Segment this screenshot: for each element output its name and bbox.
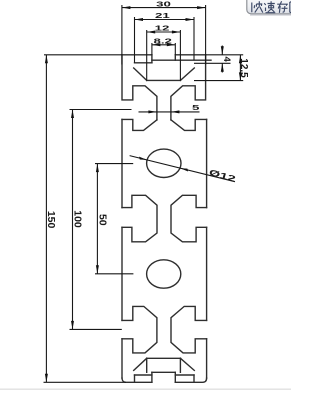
head roof underside right — [180, 68, 194, 80]
leader arrow left — [139, 157, 147, 160]
svg-text:21: 21 — [155, 12, 170, 20]
dim 30 extension left — [121, 5, 123, 65]
bore hole circle C1 — [147, 149, 181, 177]
dim 150 extension top — [44, 54, 122, 56]
bottom roof underside right — [180, 358, 194, 370]
outer wall left middle — [121, 227, 123, 320]
dim 100 arrow bottom — [71, 321, 74, 330]
dim 12.5 arrow bottom — [239, 72, 242, 81]
dim 100 extension top — [70, 109, 132, 111]
bottom face right with round corner — [175, 378, 206, 382]
slot station1 right — [171, 119, 207, 130]
dim 50 extension top — [95, 163, 133, 165]
head top face left — [122, 54, 152, 56]
head ledge left — [135, 62, 152, 64]
dim 8.2 extension right — [174, 43, 176, 55]
bottom slot ceiling — [152, 371, 175, 373]
dim 4 arrow lower — [221, 63, 224, 71]
button glyph kuai — [252, 1, 263, 12]
dim 12.5 extension top — [206, 54, 244, 56]
profile head outline left — [122, 55, 157, 120]
svg-text:30: 30 — [156, 0, 171, 8]
head slot inner face right — [174, 55, 176, 60]
dim 50 extension bottom — [95, 273, 133, 275]
quick-save button — [247, 0, 299, 15]
dim 4 arrow upper — [221, 46, 224, 55]
bottom rim inner face left — [134, 375, 136, 382]
bottom ledge right — [175, 374, 194, 376]
head slot inner face left — [151, 55, 153, 63]
svg-text:5: 5 — [192, 104, 199, 112]
svg-text:100: 100 — [71, 210, 83, 228]
dim 8.2 arrow left — [152, 43, 161, 46]
dim 50 arrow top — [96, 164, 99, 173]
bottom chamber side left — [146, 358, 148, 372]
bottom ledge left — [135, 374, 152, 376]
leader line for hole diameter — [130, 156, 235, 182]
dim 4 line upper — [221, 46, 223, 55]
bore hole circle C2 — [147, 260, 181, 288]
leader arrow right — [180, 168, 188, 171]
dim 12 extension left — [146, 30, 148, 80]
svg-text:50: 50 — [96, 214, 108, 226]
slot station3 right — [171, 306, 207, 353]
dim 100 line — [72, 110, 74, 330]
head ledge right / slot floor — [152, 59, 211, 61]
head top face right — [175, 54, 205, 56]
slot station1 left — [122, 119, 157, 130]
slot station2 left — [122, 195, 157, 242]
dim 5 arrow left — [148, 110, 157, 113]
dim 21 arrow right — [186, 18, 195, 21]
dim 21 extension left — [134, 17, 136, 63]
outer wall right lower — [206, 339, 208, 378]
dim 12.5 line — [239, 55, 241, 81]
outer wall right middle — [206, 227, 208, 320]
svg-text:8.2: 8.2 — [153, 38, 172, 46]
dim 30 arrow left — [122, 6, 130, 9]
svg-text:12: 12 — [155, 25, 170, 33]
dim 12 extension right — [179, 30, 181, 80]
slot station2 right — [171, 195, 207, 242]
bottom chamber side right — [179, 358, 181, 372]
button glyph cun — [277, 1, 288, 13]
dim 150 arrow bottom — [45, 374, 48, 383]
dim 150 arrow top — [45, 55, 48, 64]
dim 150 line — [45, 55, 47, 383]
dim 30 line — [122, 7, 206, 9]
dim 12 arrow left — [147, 31, 156, 34]
bottom rim inner face right — [193, 375, 195, 382]
page bottom rule — [0, 388, 291, 390]
button glyph su — [264, 1, 275, 13]
dim 100 extension bottom — [70, 328, 122, 330]
dim 8.2 line — [152, 44, 175, 46]
svg-text:150: 150 — [45, 211, 57, 229]
dim 12 line — [147, 31, 181, 33]
outer wall left upper — [121, 119, 123, 207]
dim 8.2 extension left — [151, 43, 153, 55]
dim 30 arrow right — [197, 6, 206, 9]
bottom chamber floor — [147, 357, 181, 359]
bottom slot inner face left — [151, 372, 153, 382]
dim 5 line — [139, 111, 200, 113]
dim 12 arrow right — [172, 31, 181, 34]
dim 100 arrow top — [71, 110, 74, 119]
dim 21 arrow left — [135, 18, 144, 21]
button glyph tu partial — [290, 2, 296, 12]
profile head outline right — [171, 55, 206, 120]
dim 21 line — [135, 19, 195, 21]
outer wall right upper — [206, 119, 208, 207]
head roof underside left — [134, 68, 147, 80]
bottom roof underside left — [134, 358, 147, 370]
dim 21 extension right — [193, 17, 195, 60]
outer wall left lower — [121, 339, 123, 378]
bottom slot inner face right — [174, 372, 176, 382]
slot station3 left — [122, 306, 157, 353]
dim 8.2 arrow right — [167, 43, 176, 46]
dim 50 line — [96, 164, 98, 274]
dim 12.5 arrow top — [239, 55, 242, 64]
dim 30 extension right — [205, 5, 207, 65]
head chamber floor — [147, 79, 181, 81]
dim 150 extension bottom — [44, 381, 127, 383]
bottom face left with round corner — [122, 378, 152, 382]
dim 5 arrow right — [171, 110, 180, 113]
dim 12.5 extension bottom — [194, 80, 243, 82]
svg-text:4: 4 — [221, 57, 232, 63]
svg-text:12.5: 12.5 — [238, 58, 249, 78]
dim 50 arrow bottom — [96, 265, 99, 274]
dim 4 extension middle — [194, 62, 231, 64]
dim 4 line lower — [221, 63, 223, 72]
